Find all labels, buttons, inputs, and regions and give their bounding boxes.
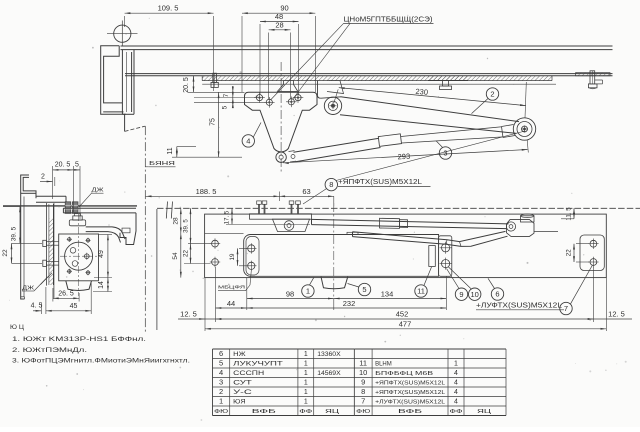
- svg-text:4. 5: 4. 5: [31, 303, 43, 310]
- svg-text:13360X: 13360X: [317, 351, 341, 358]
- svg-text:4: 4: [454, 389, 458, 396]
- svg-text:4: 4: [219, 368, 223, 377]
- svg-text:188. 5: 188. 5: [196, 187, 217, 196]
- svg-text:+ЯПФТХ(SUS)M5X12L: +ЯПФТХ(SUS)M5X12L: [375, 381, 446, 387]
- svg-text:232: 232: [343, 299, 356, 308]
- svg-text:452: 452: [396, 310, 409, 319]
- svg-text:ЦНоM5ГПТББЩЩ(2СЭ): ЦНоM5ГПТББЩЩ(2СЭ): [344, 17, 433, 24]
- svg-text:ЯЦ: ЯЦ: [325, 409, 340, 415]
- svg-text:Ю Ц: Ю Ц: [10, 324, 24, 331]
- svg-text:54: 54: [172, 252, 179, 260]
- svg-text:3: 3: [443, 149, 447, 158]
- svg-text:5: 5: [222, 105, 229, 109]
- svg-text:11: 11: [417, 287, 425, 296]
- svg-text:+ЛУФТХ(SUS)M5X12L: +ЛУФТХ(SUS)M5X12L: [375, 400, 446, 406]
- svg-text:63: 63: [302, 187, 310, 196]
- svg-text:11: 11: [167, 147, 174, 154]
- svg-text:2. ЮЖтПЭМнДл.: 2. ЮЖтПЭМнДл.: [12, 347, 87, 354]
- svg-text:1: 1: [304, 351, 308, 358]
- svg-text:БЯНЯ: БЯНЯ: [149, 161, 175, 167]
- svg-text:ВФБ: ВФБ: [398, 409, 422, 415]
- svg-text:109. 5: 109. 5: [158, 4, 179, 13]
- svg-text:ФЮ: ФЮ: [356, 409, 370, 415]
- svg-text:98: 98: [286, 289, 294, 298]
- svg-text:26. 5: 26. 5: [58, 291, 74, 298]
- svg-text:5: 5: [219, 359, 223, 368]
- svg-text:10: 10: [471, 290, 479, 299]
- svg-text:1: 1: [304, 389, 308, 396]
- svg-text:8: 8: [361, 387, 365, 396]
- svg-text:ФФ: ФФ: [450, 409, 464, 415]
- svg-text:39. 5: 39. 5: [11, 226, 18, 241]
- svg-text:ДЖ: ДЖ: [22, 285, 34, 291]
- svg-text:5: 5: [75, 161, 79, 168]
- svg-text:+ЯПФТХ(SUS)M5X12L: +ЯПФТХ(SUS)M5X12L: [338, 179, 422, 186]
- svg-text:ДЖ: ДЖ: [92, 188, 104, 194]
- svg-text:ЮЯ: ЮЯ: [233, 400, 245, 406]
- svg-text:СССПН: СССПН: [233, 371, 264, 377]
- svg-text:1: 1: [304, 361, 308, 368]
- svg-text:477: 477: [399, 320, 412, 329]
- svg-text:22: 22: [566, 249, 573, 256]
- svg-text:1: 1: [304, 399, 308, 406]
- svg-text:293: 293: [397, 152, 410, 162]
- svg-text:1: 1: [304, 370, 308, 377]
- svg-text:22: 22: [183, 250, 190, 257]
- svg-text:БПФБФЦ M6В: БПФБФЦ M6В: [375, 371, 433, 377]
- svg-text:230: 230: [415, 87, 428, 97]
- svg-text:У-С: У-С: [233, 390, 253, 396]
- svg-text:45: 45: [70, 303, 78, 310]
- svg-text:39. 5: 39. 5: [183, 219, 190, 233]
- svg-text:+ЯПФТХ(SUS)M5X12L: +ЯПФТХ(SUS)M5X12L: [375, 390, 446, 396]
- svg-text:ЯЦ: ЯЦ: [477, 409, 492, 415]
- svg-text:8: 8: [329, 180, 333, 189]
- svg-text:7: 7: [361, 397, 365, 406]
- svg-text:ВФБ: ВФБ: [252, 409, 276, 415]
- svg-text:7: 7: [223, 93, 230, 97]
- svg-text:12. 5: 12. 5: [180, 310, 197, 319]
- svg-text:1: 1: [454, 361, 458, 368]
- svg-text:3: 3: [219, 378, 223, 387]
- svg-text:28: 28: [275, 20, 283, 29]
- svg-text:49: 49: [98, 250, 105, 258]
- svg-text:17. 5: 17. 5: [224, 210, 231, 224]
- svg-text:14569X: 14569X: [317, 370, 341, 377]
- svg-text:ФЮ: ФЮ: [214, 409, 228, 415]
- svg-text:22: 22: [2, 249, 9, 257]
- svg-text:19: 19: [229, 253, 236, 260]
- svg-text:ФФ: ФФ: [299, 409, 313, 415]
- svg-text:1: 1: [219, 397, 223, 406]
- svg-text:6: 6: [219, 349, 223, 358]
- svg-text:2: 2: [490, 90, 494, 99]
- svg-text:4: 4: [454, 370, 458, 377]
- svg-text:10: 10: [359, 368, 367, 377]
- svg-text:+ЛУФТХ(SUS)M5X12L: +ЛУФТХ(SUS)M5X12L: [476, 303, 562, 310]
- svg-text:2: 2: [219, 387, 223, 396]
- svg-text:11: 11: [359, 359, 367, 368]
- svg-text:1: 1: [304, 380, 308, 387]
- svg-text:9: 9: [459, 290, 463, 299]
- svg-text:НЖ: НЖ: [233, 352, 246, 358]
- svg-text:МБЦФЯ: МБЦФЯ: [218, 285, 246, 291]
- svg-text:BLНМ: BLНМ: [375, 362, 392, 368]
- svg-text:4: 4: [454, 399, 458, 406]
- svg-text:7: 7: [564, 304, 568, 313]
- svg-text:СУТ: СУТ: [233, 381, 252, 387]
- svg-text:4: 4: [454, 380, 458, 387]
- svg-text:44: 44: [227, 299, 235, 308]
- svg-text:1. ЮЖт KM313P-HS1 БФФнл.: 1. ЮЖт KM313P-HS1 БФФнл.: [12, 336, 146, 343]
- svg-text:3. ЮФотПЦЭМгнитл.ФМиотиЭМнЯииг: 3. ЮФотПЦЭМгнитл.ФМиотиЭМнЯиигхгнхтл.: [12, 358, 190, 365]
- svg-text:28: 28: [173, 217, 180, 225]
- svg-text:1: 1: [306, 287, 310, 296]
- svg-text:12. 5: 12. 5: [608, 310, 625, 319]
- svg-text:5: 5: [362, 285, 366, 294]
- svg-text:75: 75: [210, 118, 217, 126]
- svg-text:ЛУКУЧУПТ: ЛУКУЧУПТ: [233, 362, 283, 368]
- svg-text:20. 5: 20. 5: [183, 77, 190, 93]
- svg-text:4: 4: [246, 137, 250, 146]
- svg-text:20. 5: 20. 5: [55, 161, 71, 168]
- svg-text:9: 9: [361, 378, 365, 387]
- svg-text:2: 2: [41, 174, 45, 181]
- svg-text:14: 14: [98, 281, 105, 289]
- svg-text:134: 134: [381, 289, 394, 298]
- svg-text:6: 6: [495, 290, 499, 299]
